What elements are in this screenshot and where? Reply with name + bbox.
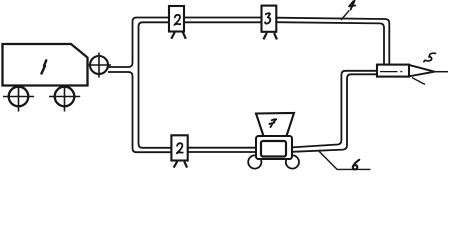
digit 3 (top box) bbox=[265, 13, 270, 23]
nozzle centerline bbox=[380, 71, 402, 73]
box 2 (top filter) bbox=[169, 6, 184, 32]
feeder chamber inner bbox=[261, 141, 286, 157]
blower circle bbox=[87, 53, 111, 78]
wire top pipe from box 3 to right drop outer bbox=[276, 18, 389, 65]
wire bottom pipe bottom line + riser right + jet bottom line bbox=[292, 74, 378, 152]
wire top pipe inner segment to box 2 bbox=[143, 21, 170, 23]
wire bottom pipe from feeder to riser + jet top line bbox=[292, 71, 378, 148]
wire feed pipe top line + manifold left line + top pipe outer bbox=[108, 18, 169, 68]
truck wheel left bbox=[3, 85, 34, 111]
nozzle cone bbox=[409, 65, 435, 76]
wire bottom pipe from box 2 to feeder bbox=[188, 148, 256, 152]
box 2 legs bbox=[171, 32, 186, 39]
nozzle body 5 bbox=[377, 65, 409, 77]
digit 1 (truck) bbox=[42, 60, 47, 73]
feeder wheel left bbox=[248, 155, 261, 168]
truck body 1 bbox=[3, 44, 88, 86]
spray leader below cone bbox=[412, 78, 425, 85]
digit 4 (label) bbox=[349, 1, 355, 10]
truck wheel right bbox=[49, 85, 80, 111]
digit 6 (label) bbox=[353, 160, 360, 170]
wire top pipe from box 3 to right drop inner bbox=[276, 22, 384, 64]
digit 7 (hopper) bbox=[269, 119, 276, 127]
box 3 bbox=[262, 6, 277, 32]
hopper 7 trapezoid bbox=[256, 113, 294, 136]
digit 2 (bottom box) bbox=[177, 143, 183, 153]
wire feed pipe bottom line + manifold left lower + bottom pipe outer bbox=[108, 72, 171, 152]
wire manifold right line (inner) top branch bbox=[139, 22, 172, 148]
digit 5 (label) bbox=[424, 53, 436, 61]
wire top pipe between box 2 and box 3 bbox=[184, 18, 262, 23]
box 3 legs bbox=[263, 33, 277, 40]
leader for label 4 bbox=[341, 10, 349, 20]
box 2 (bottom) bbox=[171, 135, 187, 160]
box 2 bottom legs bbox=[174, 162, 187, 168]
feeder wheel right bbox=[286, 155, 299, 168]
nozzle output line bbox=[435, 71, 449, 73]
digit 2 (top box) bbox=[174, 15, 180, 25]
leader for label 6 bbox=[319, 151, 371, 169]
feeder chamber outer bbox=[256, 136, 292, 159]
